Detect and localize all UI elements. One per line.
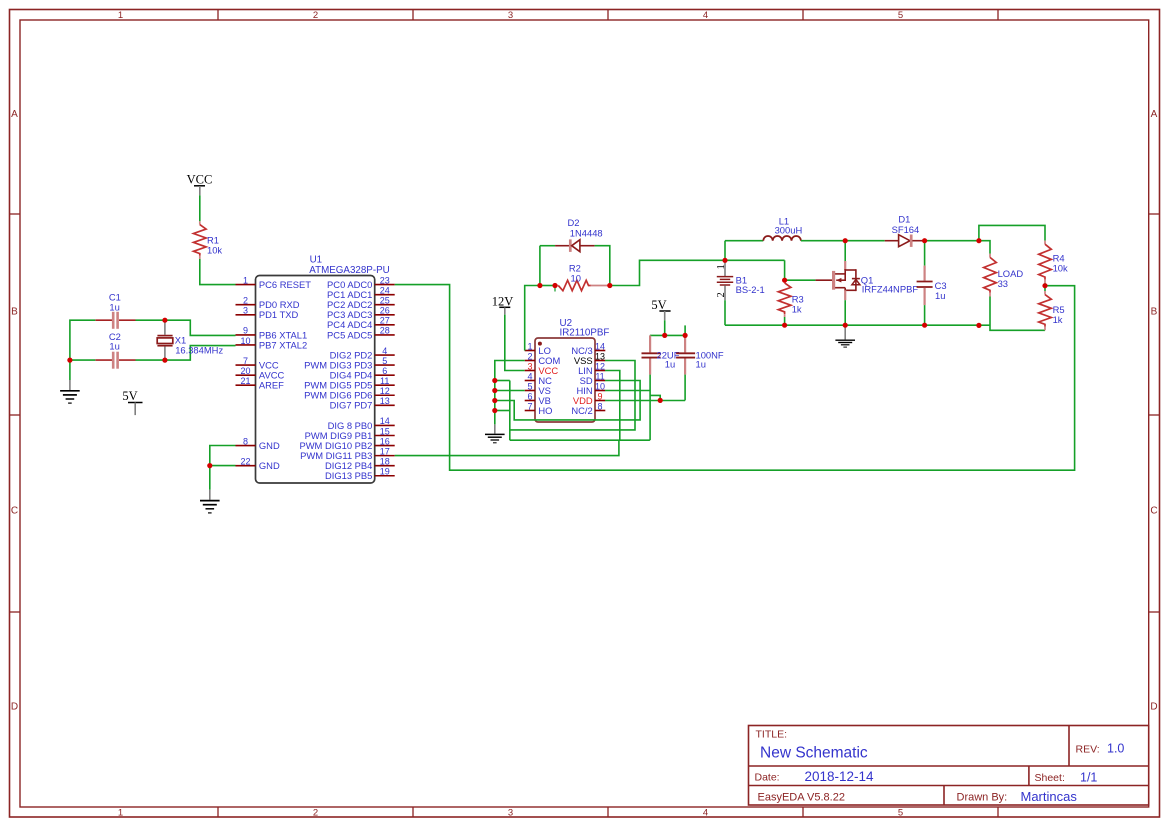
svg-text:GND: GND (259, 440, 280, 451)
svg-text:2: 2 (527, 351, 532, 361)
svg-text:300uH: 300uH (775, 224, 803, 235)
svg-text:11: 11 (595, 371, 604, 381)
svg-text:1u: 1u (109, 341, 119, 352)
svg-text:10k: 10k (1053, 262, 1068, 273)
svg-text:10: 10 (595, 381, 605, 391)
svg-text:9: 9 (243, 326, 248, 336)
svg-text:3: 3 (508, 10, 513, 21)
svg-text:1.0: 1.0 (1107, 742, 1124, 756)
svg-text:24: 24 (380, 285, 390, 295)
svg-text:1u: 1u (696, 359, 706, 370)
svg-text:2018-12-14: 2018-12-14 (805, 769, 875, 784)
svg-text:13: 13 (380, 396, 390, 406)
svg-text:10: 10 (240, 336, 250, 346)
svg-text:23: 23 (380, 275, 390, 285)
svg-text:2: 2 (313, 807, 318, 818)
svg-text:11: 11 (380, 376, 389, 386)
svg-text:5V: 5V (122, 389, 137, 403)
svg-text:D: D (1150, 702, 1157, 713)
svg-text:PC5 ADC5: PC5 ADC5 (327, 329, 372, 340)
svg-text:REV:: REV: (1076, 744, 1100, 756)
svg-text:16: 16 (380, 436, 390, 446)
svg-text:2: 2 (243, 296, 248, 306)
svg-text:4: 4 (703, 10, 708, 21)
svg-text:3: 3 (508, 807, 513, 818)
svg-text:1/1: 1/1 (1080, 771, 1097, 785)
svg-text:15: 15 (380, 426, 390, 436)
svg-text:U1: U1 (310, 255, 323, 266)
svg-text:1: 1 (118, 807, 123, 818)
svg-text:1: 1 (527, 341, 532, 351)
svg-text:ATMEGA328P-PU: ATMEGA328P-PU (309, 265, 389, 276)
svg-text:PC6 RESET: PC6 RESET (259, 279, 311, 290)
svg-text:HO: HO (538, 405, 552, 416)
svg-text:D: D (11, 702, 18, 713)
svg-text:1N4448: 1N4448 (570, 228, 603, 239)
svg-text:22: 22 (240, 456, 250, 466)
svg-text:1u: 1u (935, 290, 945, 301)
svg-text:10: 10 (571, 272, 581, 283)
svg-text:27: 27 (380, 316, 390, 326)
svg-text:3: 3 (527, 361, 532, 371)
svg-text:8: 8 (243, 436, 248, 446)
svg-text:21: 21 (240, 376, 250, 386)
svg-text:4: 4 (703, 807, 708, 818)
svg-text:26: 26 (380, 306, 390, 316)
svg-text:5: 5 (898, 807, 903, 818)
svg-text:B: B (1151, 307, 1158, 318)
svg-text:IRFZ44NPBF: IRFZ44NPBF (862, 284, 919, 295)
svg-text:BS-2-1: BS-2-1 (736, 284, 765, 295)
svg-text:1: 1 (118, 10, 123, 21)
svg-text:8: 8 (597, 401, 602, 411)
svg-text:2: 2 (716, 292, 727, 297)
svg-text:5: 5 (898, 10, 903, 21)
svg-text:18: 18 (380, 456, 390, 466)
svg-text:C: C (1150, 506, 1157, 517)
svg-text:4: 4 (382, 346, 387, 356)
svg-text:GND: GND (259, 460, 280, 471)
svg-text:Martincas: Martincas (1021, 789, 1078, 804)
svg-text:1k: 1k (1053, 314, 1063, 325)
svg-text:A: A (1151, 109, 1158, 120)
svg-text:12: 12 (380, 386, 390, 396)
svg-text:5: 5 (382, 356, 387, 366)
svg-text:1: 1 (716, 264, 727, 269)
svg-text:14: 14 (595, 341, 605, 351)
svg-text:New Schematic: New Schematic (760, 745, 868, 762)
svg-text:D2: D2 (568, 217, 580, 228)
svg-text:B: B (11, 307, 18, 318)
svg-text:PB7 XTAL2: PB7 XTAL2 (259, 339, 307, 350)
svg-text:9: 9 (597, 391, 602, 401)
svg-text:13: 13 (595, 351, 605, 361)
svg-text:D1: D1 (898, 214, 910, 225)
svg-text:19: 19 (380, 467, 390, 477)
svg-text:17: 17 (380, 446, 390, 456)
svg-text:C: C (11, 506, 18, 517)
svg-text:DIG13 PB5: DIG13 PB5 (325, 470, 372, 481)
svg-text:DIG7 PD7: DIG7 PD7 (330, 400, 373, 411)
svg-text:33: 33 (998, 278, 1008, 289)
svg-text:2: 2 (313, 10, 318, 21)
svg-text:12V: 12V (492, 294, 514, 308)
svg-text:10k: 10k (207, 245, 222, 256)
svg-text:A: A (11, 109, 18, 120)
svg-text:5: 5 (527, 381, 532, 391)
svg-text:16.384MHz: 16.384MHz (175, 345, 223, 356)
svg-text:7: 7 (243, 356, 248, 366)
svg-text:6: 6 (382, 366, 387, 376)
svg-text:1: 1 (243, 275, 248, 285)
svg-text:EasyEDA V5.8.22: EasyEDA V5.8.22 (758, 792, 845, 804)
svg-text:4: 4 (527, 371, 532, 381)
svg-text:1u: 1u (109, 301, 119, 312)
svg-text:14: 14 (380, 416, 390, 426)
svg-text:Date:: Date: (755, 772, 780, 784)
svg-text:VCC: VCC (187, 173, 213, 187)
svg-text:6: 6 (527, 391, 532, 401)
svg-text:Sheet:: Sheet: (1035, 772, 1065, 784)
svg-text:NC/2: NC/2 (571, 405, 592, 416)
svg-text:1k: 1k (792, 304, 802, 315)
svg-text:28: 28 (380, 326, 390, 336)
svg-text:20: 20 (240, 366, 250, 376)
svg-text:AREF: AREF (259, 380, 284, 391)
svg-text:25: 25 (380, 296, 390, 306)
svg-text:PD1 TXD: PD1 TXD (259, 309, 299, 320)
svg-text:12: 12 (595, 361, 605, 371)
svg-text:3: 3 (243, 306, 248, 316)
svg-text:TITLE:: TITLE: (756, 729, 788, 741)
svg-text:7: 7 (527, 401, 532, 411)
svg-text:Drawn By:: Drawn By: (957, 792, 1008, 804)
svg-text:IR2110PBF: IR2110PBF (560, 328, 610, 339)
svg-text:SF164: SF164 (892, 224, 920, 235)
svg-text:5V: 5V (651, 298, 666, 312)
svg-text:1u: 1u (665, 359, 675, 370)
